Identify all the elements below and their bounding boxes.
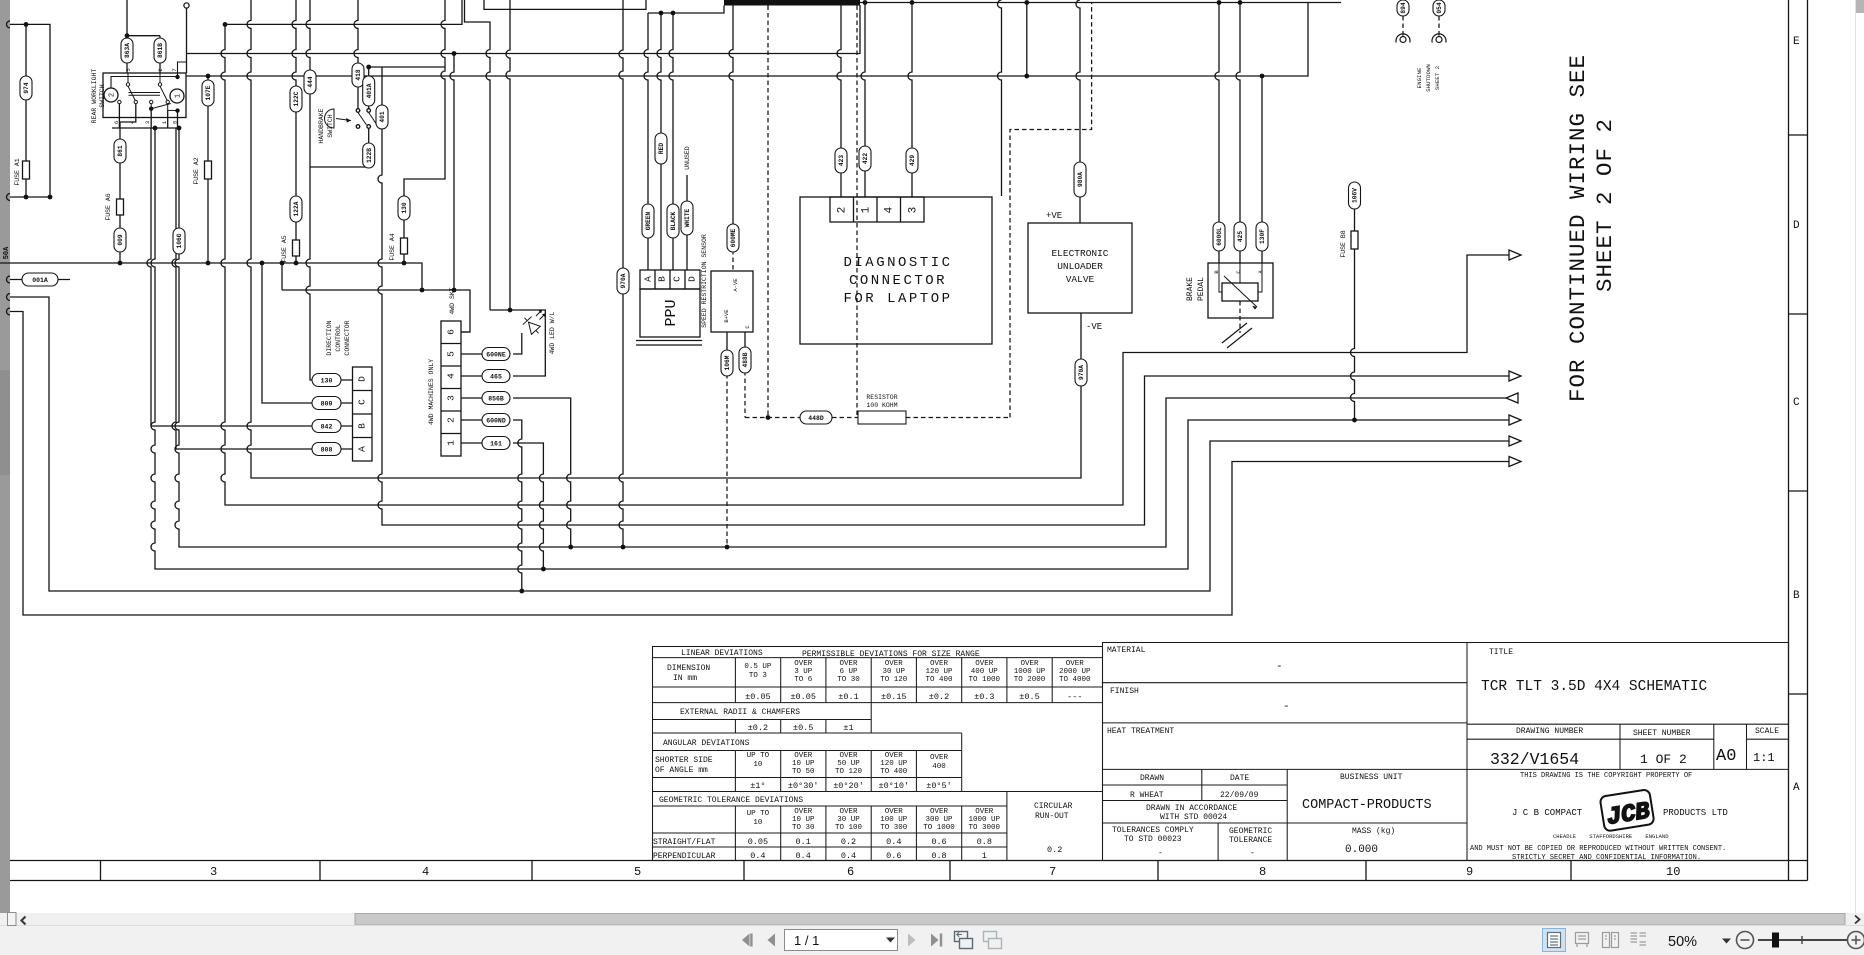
- svg-text:CONTROL: CONTROL: [335, 324, 342, 351]
- svg-text:RUN-OUT: RUN-OUT: [1035, 812, 1069, 821]
- svg-text:100 KOHM: 100 KOHM: [866, 402, 897, 409]
- svg-text:106V: 106V: [1352, 188, 1359, 203]
- engine shutdown ring terminal 2: [1432, 34, 1446, 43]
- wire 418 from B1 to handbrake pole: [354, 0, 358, 109]
- svg-text:ELECTRONIC: ELECTRONIC: [1051, 248, 1108, 259]
- svg-text:±1: ±1: [843, 723, 853, 733]
- wire brake B 600GL: [1215, 3, 1219, 264]
- node 600ND: [482, 414, 510, 427]
- wire dashed riser x857: [856, 6, 858, 418]
- svg-text:J C B COMPACT: J C B COMPACT: [1512, 808, 1583, 818]
- wire sensor B pin: [726, 332, 728, 350]
- svg-text:122C: 122C: [293, 91, 300, 106]
- svg-text:600GL: 600GL: [1216, 227, 1223, 246]
- svg-text:±0.5: ±0.5: [1019, 692, 1039, 702]
- svg-text:GEOMETRIC TOLERANCE DEVIATIONS: GEOMETRIC TOLERANCE DEVIATIONS: [659, 796, 803, 805]
- svg-text:CHEADLE STAFFORDSHIRE EN: CHEADLE STAFFORDSHIRE ENGLAND: [1553, 833, 1669, 840]
- svg-text:A: A: [643, 276, 654, 282]
- node RED: [655, 133, 667, 164]
- svg-text:DRAWN IN ACCORDANCE: DRAWN IN ACCORDANCE: [1146, 804, 1237, 813]
- wire drop to y505 line: [221, 24, 1509, 505]
- edge loops: [7, 21, 11, 315]
- svg-text:2: 2: [446, 417, 457, 423]
- svg-text:IN mm: IN mm: [673, 674, 697, 683]
- svg-text:0.8: 0.8: [977, 837, 992, 847]
- wire node line y197: [7, 194, 51, 201]
- svg-text:SWITCH: SWITCH: [99, 84, 106, 108]
- fuse A1: [23, 161, 30, 179]
- svg-text:7: 7: [171, 68, 178, 71]
- svg-text:UNUSED: UNUSED: [684, 146, 691, 170]
- svg-text:OVER: OVER: [885, 808, 904, 816]
- svg-text:FUSE B8: FUSE B8: [1340, 230, 1347, 257]
- svg-text:0.6: 0.6: [931, 837, 946, 847]
- wire 401 drop feeds y525 line: [378, 67, 1509, 525]
- svg-text:ENGINE: ENGINE: [1416, 67, 1423, 88]
- svg-text:400: 400: [932, 763, 946, 771]
- wire node line y128: [112, 127, 180, 129]
- node 130: [312, 374, 341, 387]
- svg-text:401A: 401A: [366, 83, 373, 98]
- node 130 fuse A4: [398, 196, 410, 220]
- svg-text:3: 3: [144, 121, 151, 124]
- svg-text:0.2: 0.2: [841, 837, 856, 847]
- TOLERANCE TABLE: [653, 647, 1103, 861]
- wire mini bus y13 into top box: [648, 6, 724, 14]
- node GREEN: [642, 204, 654, 238]
- wire top U link: [484, 0, 646, 9]
- svg-text:OVER: OVER: [930, 808, 949, 816]
- svg-text:FUSE A4: FUSE A4: [389, 233, 396, 260]
- wire node 809 to pin C: [262, 263, 353, 403]
- svg-text:HANDBRAKE: HANDBRAKE: [318, 108, 325, 143]
- arrow off-sheet y255: [1509, 250, 1521, 260]
- PPU box: [640, 289, 700, 337]
- svg-text:1000 UP: 1000 UP: [1014, 668, 1046, 676]
- svg-text:10 UP: 10 UP: [792, 760, 815, 768]
- svg-text:UP TO: UP TO: [747, 752, 770, 760]
- svg-text:1: 1: [982, 851, 987, 861]
- svg-text:±0°30': ±0°30': [788, 781, 819, 791]
- svg-text:TO 30: TO 30: [837, 676, 860, 684]
- svg-text:600NE: 600NE: [486, 352, 506, 359]
- node 429: [906, 148, 918, 173]
- svg-text:THIS DRAWING IS THE COPYRIGHT: THIS DRAWING IS THE COPYRIGHT PROPERTY O…: [1520, 772, 1692, 780]
- svg-text:-: -: [1158, 849, 1163, 858]
- svg-text:0.000: 0.000: [1345, 844, 1378, 856]
- svg-text:5: 5: [125, 68, 132, 71]
- wire node 856B drop: [513, 398, 571, 547]
- node 488B: [739, 347, 751, 373]
- resistor 100 KOHM: [858, 411, 906, 424]
- node 600ME: [727, 224, 739, 252]
- svg-text:4WD LED W/L: 4WD LED W/L: [549, 311, 556, 354]
- svg-text:TO 1000: TO 1000: [923, 824, 955, 832]
- electronic unloader valve box: [1028, 223, 1132, 313]
- svg-text:120 UP: 120 UP: [880, 760, 908, 768]
- svg-text:1: 1: [861, 206, 873, 213]
- svg-text:0.4: 0.4: [750, 851, 765, 861]
- svg-text:SHORTER SIDE: SHORTER SIDE: [655, 756, 713, 765]
- svg-text:4WD MACHINES ONLY: 4WD MACHINES ONLY: [428, 359, 435, 425]
- svg-text:2: 2: [837, 207, 849, 214]
- svg-text:---: ---: [1067, 692, 1082, 702]
- svg-text:BRAKE: BRAKE: [1186, 277, 1195, 301]
- node 425: [1234, 222, 1246, 251]
- svg-text:2: 2: [157, 68, 164, 71]
- svg-text:FOR CONTINUED WIRING SEE: FOR CONTINUED WIRING SEE: [1565, 54, 1591, 402]
- svg-text:429: 429: [909, 155, 916, 166]
- wire 861B to switch pin2: [159, 63, 161, 73]
- wire spare drop x1001: [998, 0, 1002, 196]
- wire top edge ring to switch: [186, 8, 188, 73]
- node 161: [482, 437, 510, 450]
- svg-text:3: 3: [210, 865, 217, 879]
- svg-text:LINEAR DEVIATIONS: LINEAR DEVIATIONS: [681, 649, 763, 658]
- wire worklight feed from top edge: [127, 0, 160, 38]
- svg-text:OVER: OVER: [839, 752, 858, 760]
- svg-text:OVER: OVER: [839, 660, 858, 668]
- svg-text:OVER: OVER: [794, 660, 813, 668]
- svg-text:OVER: OVER: [839, 808, 858, 816]
- resistor label: [866, 394, 897, 409]
- svg-text:±0°5': ±0°5': [926, 781, 952, 791]
- svg-text:D: D: [357, 376, 368, 382]
- svg-text:10: 10: [753, 819, 763, 827]
- wire diag pin1 422 up: [861, 3, 865, 198]
- node 600GL: [1213, 222, 1225, 251]
- svg-text:0.8: 0.8: [931, 851, 946, 861]
- viewer left gray strip: [0, 0, 10, 926]
- svg-text:600ME: 600ME: [730, 228, 737, 247]
- svg-text:A: A: [357, 446, 368, 452]
- svg-text:400 UP: 400 UP: [971, 668, 999, 676]
- node 808: [312, 443, 341, 456]
- wire node 600NE to LED: [513, 333, 522, 354]
- svg-text:B: B: [657, 276, 668, 282]
- TITLE BLOCK: [1103, 643, 1789, 861]
- svg-text:WHITE: WHITE: [684, 208, 691, 227]
- svg-text:PEDAL: PEDAL: [1197, 277, 1206, 301]
- node 856B: [482, 392, 510, 405]
- node 423: [835, 148, 847, 173]
- node 422: [859, 146, 871, 171]
- svg-text:A: A: [1793, 782, 1800, 794]
- direction control connector: [353, 367, 373, 461]
- svg-text:±0.2: ±0.2: [929, 692, 949, 702]
- svg-text:MASS (kg): MASS (kg): [1352, 827, 1395, 836]
- right scroll arrow: [1855, 916, 1860, 924]
- svg-text:130: 130: [321, 378, 333, 385]
- svg-text:C: C: [357, 399, 368, 405]
- svg-text:8: 8: [171, 121, 178, 124]
- svg-text:SHEET 2: SHEET 2: [1434, 65, 1441, 90]
- svg-text:RED: RED: [658, 143, 665, 154]
- node 122C: [290, 86, 302, 112]
- svg-text:REAR WORKLIGHT: REAR WORKLIGHT: [91, 69, 98, 124]
- svg-text:6: 6: [847, 865, 854, 879]
- wire fuse A2 107E drop: [207, 76, 209, 263]
- wire dashed brake pot wiper: [1239, 301, 1241, 333]
- wire skt pin stubs: [461, 332, 482, 443]
- wire switch pin4 fuse A6 chain: [120, 104, 136, 263]
- component box top cut-off: [724, 0, 860, 6]
- wire LED feeder from top: [506, 0, 510, 310]
- svg-text:OVER: OVER: [930, 660, 949, 668]
- svg-text:10: 10: [1666, 865, 1680, 879]
- svg-text:808: 808: [321, 447, 333, 454]
- svg-text:10 UP: 10 UP: [792, 816, 815, 824]
- svg-text:970A: 970A: [1078, 365, 1085, 380]
- svg-text:OVER: OVER: [930, 754, 949, 762]
- svg-text:SHEET NUMBER: SHEET NUMBER: [1633, 729, 1691, 738]
- node 401A: [363, 76, 375, 106]
- svg-text:OF ANGLE mm: OF ANGLE mm: [655, 766, 708, 775]
- node 054: [1433, 0, 1445, 16]
- svg-text:30 UP: 30 UP: [837, 816, 860, 824]
- svg-text:PPU: PPU: [663, 299, 680, 326]
- svg-text:4: 4: [446, 373, 457, 379]
- wire sub-bus y290 to 4wd pin6: [282, 290, 470, 332]
- svg-text:TO 120: TO 120: [880, 676, 908, 684]
- node 894: [1397, 0, 1409, 16]
- arrow off-sheet y376: [1509, 371, 1521, 381]
- fuse A5: [293, 240, 300, 256]
- node BLACK: [667, 204, 679, 238]
- svg-text:TO 2000: TO 2000: [1014, 676, 1046, 684]
- svg-text:2: 2: [109, 93, 117, 97]
- svg-text:FUSE A5: FUSE A5: [281, 235, 288, 262]
- 4wd skt connector: [441, 321, 461, 456]
- svg-text:107E: 107E: [205, 85, 212, 100]
- svg-text:422: 422: [862, 153, 869, 164]
- svg-text:9: 9: [1466, 865, 1473, 879]
- wire PPU pin C BLACK up: [669, 13, 673, 270]
- wire dashed sensor C to resistor line: [745, 371, 1010, 418]
- fuse B8: [1351, 231, 1358, 249]
- svg-text:DRAWING NUMBER: DRAWING NUMBER: [1516, 727, 1583, 736]
- svg-text:001A: 001A: [32, 277, 48, 284]
- svg-text:842: 842: [321, 424, 333, 431]
- svg-text:30 UP: 30 UP: [883, 668, 906, 676]
- svg-text:CIRCULAR: CIRCULAR: [1034, 802, 1073, 811]
- node 009: [114, 228, 126, 252]
- node 401: [376, 105, 388, 129]
- svg-text:1 / 1: 1 / 1: [794, 933, 819, 948]
- svg-text:AND MUST NOT BE COPIED OR REPR: AND MUST NOT BE COPIED OR REPRODUCED WIT…: [1470, 845, 1726, 853]
- svg-text:VALVE: VALVE: [1066, 274, 1095, 285]
- svg-text:488B: 488B: [742, 352, 749, 367]
- svg-text:106M: 106M: [724, 355, 731, 370]
- svg-text:D: D: [687, 276, 698, 282]
- svg-text:0.5 UP: 0.5 UP: [744, 663, 772, 671]
- svg-text:OVER: OVER: [794, 808, 813, 816]
- svg-text:±0.2: ±0.2: [748, 723, 768, 733]
- fuse A4: [401, 238, 408, 254]
- svg-text:±0.1: ±0.1: [838, 692, 858, 702]
- rotate icons: [955, 932, 973, 949]
- node 600NE: [482, 348, 510, 361]
- node WHITE: [681, 201, 693, 235]
- svg-text:5: 5: [446, 351, 457, 357]
- svg-text:863A: 863A: [124, 43, 131, 58]
- svg-text:TO 6: TO 6: [794, 676, 813, 684]
- svg-text:4WD SKT: 4WD SKT: [449, 287, 456, 314]
- wire diag pin3 429 up: [908, 3, 912, 198]
- svg-text:1 OF 2: 1 OF 2: [1640, 752, 1687, 767]
- svg-text:0.4: 0.4: [841, 851, 856, 861]
- svg-text:TOLERANCE: TOLERANCE: [1229, 836, 1272, 845]
- svg-text:±1°: ±1°: [750, 781, 765, 791]
- svg-text:TO 400: TO 400: [925, 676, 953, 684]
- svg-text:SPEED RESTRICTION SENSOR: SPEED RESTRICTION SENSOR: [701, 234, 708, 328]
- svg-text:0.4: 0.4: [796, 851, 811, 861]
- svg-text:EXTERNAL RADII & CHAMFERS: EXTERNAL RADII & CHAMFERS: [680, 708, 800, 717]
- svg-text:TO 120: TO 120: [835, 768, 863, 776]
- svg-text:GREEN: GREEN: [645, 211, 652, 230]
- svg-text:130: 130: [401, 202, 408, 213]
- wire label capsules (vertical): [20, 0, 1445, 386]
- svg-text:009: 009: [117, 234, 124, 245]
- svg-text:894: 894: [1400, 2, 1407, 13]
- svg-text:E: E: [1793, 36, 1800, 48]
- svg-text:3: 3: [446, 395, 457, 401]
- fuse A6: [117, 199, 124, 215]
- svg-text:TO 400: TO 400: [880, 768, 908, 776]
- svg-text:0.6: 0.6: [886, 851, 901, 861]
- rear worklight switch box: [103, 73, 186, 118]
- wire sensor C pin: [744, 332, 746, 347]
- wire node 970A long drop to y547: [619, 0, 623, 547]
- svg-text:PRODUCTS LTD: PRODUCTS LTD: [1663, 808, 1728, 818]
- page combo: [785, 930, 898, 951]
- svg-text:TO STD 00023: TO STD 00023: [1124, 835, 1182, 844]
- svg-text:50A: 50A: [3, 246, 11, 259]
- svg-text:7: 7: [1049, 865, 1056, 879]
- svg-text:HEAT TREATMENT: HEAT TREATMENT: [1107, 727, 1174, 736]
- node 001A: [22, 273, 58, 286]
- page layout icons: [1543, 929, 1566, 952]
- wire brake C 425: [1236, 3, 1240, 264]
- wire node line y67 right: [369, 66, 445, 68]
- svg-text:-: -: [1250, 849, 1255, 858]
- wire 842 feeder: [147, 128, 353, 426]
- diagnostic connector text: [843, 255, 952, 307]
- svg-text:0.2: 0.2: [1047, 845, 1062, 855]
- svg-text:BLACK: BLACK: [670, 211, 677, 230]
- svg-text:FUSE A6: FUSE A6: [105, 193, 112, 220]
- component name labels: [14, 64, 1441, 426]
- svg-text:6: 6: [446, 329, 457, 335]
- wire dashed engine shutdown 1: [1402, 16, 1404, 36]
- svg-text:±0.05: ±0.05: [745, 692, 771, 702]
- PPU connector pins: [640, 270, 700, 289]
- wire sensor A-VE 600ME up: [729, 6, 733, 251]
- wire PPU pin B RED up: [657, 13, 661, 270]
- svg-text:6 UP: 6 UP: [839, 668, 858, 676]
- svg-text:SHUTDOWN: SHUTDOWN: [1425, 64, 1432, 92]
- wire switch pin1: [167, 110, 169, 128]
- svg-text:161: 161: [490, 441, 502, 448]
- wire left L y311 to arrow y461: [10, 312, 1509, 616]
- svg-text:TO 50: TO 50: [792, 768, 815, 776]
- speed restriction sensor box: [711, 271, 753, 332]
- wire fuse A4 130 drop fed from top: [404, 0, 445, 263]
- wire PPU pin A GREEN up: [644, 13, 648, 270]
- wire bus B2: [187, 5, 861, 54]
- zone numbers: [210, 865, 1680, 879]
- svg-text:465: 465: [490, 374, 502, 381]
- engine shutdown ring terminal 1: [1396, 34, 1410, 43]
- svg-text:974: 974: [23, 82, 30, 93]
- svg-text:6: 6: [113, 121, 120, 124]
- mechanical link slashes: [1222, 323, 1252, 348]
- svg-text:5: 5: [634, 865, 641, 879]
- svg-text:A-VE: A-VE: [732, 278, 739, 292]
- svg-text:130F: 130F: [1259, 229, 1266, 244]
- node 861: [114, 139, 126, 163]
- vertical scrollbar: [1855, 0, 1857, 913]
- svg-text:MATERIAL: MATERIAL: [1107, 646, 1146, 655]
- node 861B: [154, 38, 166, 63]
- svg-text:FINISH: FINISH: [1110, 687, 1139, 696]
- wire dashed sensor B to y547: [726, 374, 728, 547]
- svg-text:DRAWN: DRAWN: [1140, 774, 1164, 783]
- svg-text:SCALE: SCALE: [1755, 727, 1779, 736]
- node 970A ppu: [617, 268, 629, 294]
- svg-text:UP TO: UP TO: [747, 810, 770, 818]
- wire 122B return: [310, 129, 369, 168]
- svg-text:448D: 448D: [808, 415, 824, 422]
- svg-text:DIRECTION: DIRECTION: [326, 320, 333, 355]
- node 970A valve: [1075, 359, 1087, 386]
- wire left L y297 to arrow y441: [10, 297, 1509, 591]
- svg-text:980A: 980A: [1077, 172, 1084, 187]
- wire T1 line y24 feeding droppers: [225, 0, 462, 24]
- svg-text:STRAIGHT/FLAT: STRAIGHT/FLAT: [653, 838, 716, 847]
- svg-text:±0.05: ±0.05: [790, 692, 816, 702]
- svg-text:TO 100: TO 100: [835, 824, 863, 832]
- wire B1 drop x1026: [1026, 3, 1028, 77]
- wire riser x282: [281, 263, 283, 290]
- svg-text:C: C: [1793, 397, 1800, 409]
- diagnostic connector box: [800, 197, 992, 344]
- bottom border band: [10, 860, 1808, 862]
- wire diag pin2 423 up: [837, 6, 841, 198]
- svg-text:054: 054: [1436, 2, 1443, 13]
- svg-text:±0.5: ±0.5: [793, 723, 813, 733]
- fuse A2: [205, 161, 212, 179]
- svg-text:OVER: OVER: [1020, 660, 1039, 668]
- svg-text:809: 809: [321, 401, 333, 408]
- svg-text:0.05: 0.05: [748, 837, 768, 847]
- svg-text:SHEET 2 OF 2: SHEET 2 OF 2: [1592, 118, 1618, 292]
- svg-text:120 UP: 120 UP: [925, 668, 953, 676]
- svg-text:600ND: 600ND: [486, 418, 506, 425]
- svg-text:861B: 861B: [157, 43, 164, 58]
- wire dashed riser x768: [767, 6, 769, 418]
- svg-text:TO 1000: TO 1000: [969, 676, 1001, 684]
- svg-text:3 UP: 3 UP: [794, 668, 813, 676]
- svg-text:DIAGNOSTIC: DIAGNOSTIC: [843, 255, 952, 271]
- svg-text:2000 UP: 2000 UP: [1059, 668, 1091, 676]
- node 444: [304, 70, 316, 94]
- svg-text:444: 444: [307, 76, 314, 87]
- wire dashed to valve net: [1010, 3, 1092, 418]
- wire dashed sensor A-VE stub: [732, 250, 734, 271]
- svg-text:±0°10': ±0°10': [878, 781, 909, 791]
- svg-text:861: 861: [117, 145, 124, 156]
